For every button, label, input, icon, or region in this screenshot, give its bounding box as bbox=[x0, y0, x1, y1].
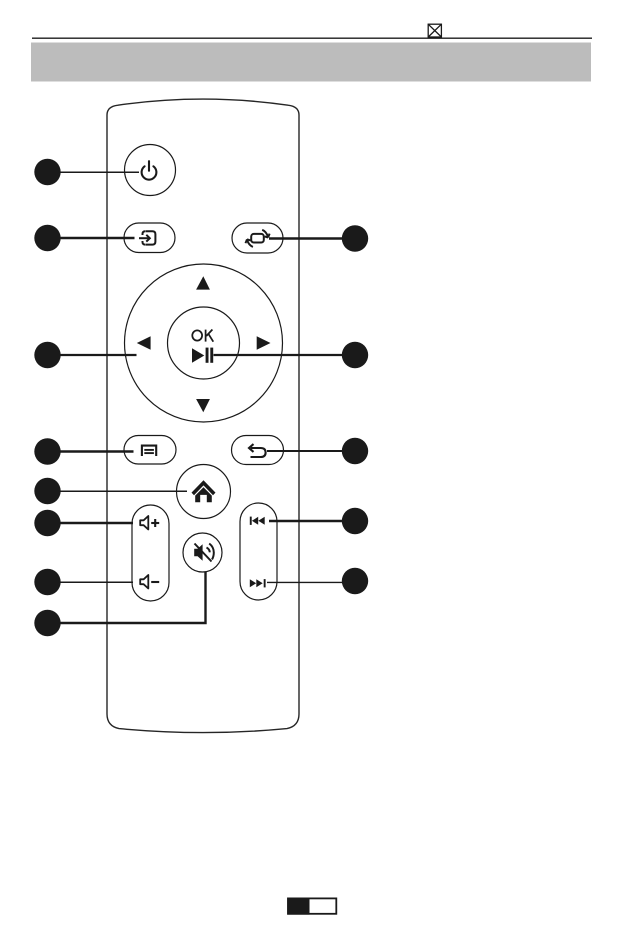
callout dot 10 (OK / play-pause) bbox=[342, 342, 368, 368]
previous icon bbox=[250, 517, 265, 525]
callout line to next bbox=[267, 581, 343, 583]
remote body outline bbox=[107, 99, 299, 733]
d-pad down arrow bbox=[196, 399, 210, 412]
header rule line bbox=[32, 37, 592, 39]
back icon bbox=[249, 444, 266, 457]
callout dot 5 (home) bbox=[34, 478, 60, 504]
callout dot 8 (mute) bbox=[34, 610, 60, 636]
callout line to rotate button bbox=[269, 237, 343, 239]
callout line to source button bbox=[60, 237, 135, 239]
envelope icon bbox=[428, 24, 441, 37]
OK label (drawn as vector glyphs) bbox=[192, 330, 213, 342]
vol- icon bbox=[140, 575, 148, 589]
gray title banner bbox=[31, 43, 591, 82]
menu button bbox=[124, 436, 176, 465]
callout line to vol+ bbox=[60, 522, 133, 524]
callout elbow line to mute button bbox=[60, 572, 206, 623]
d-pad left arrow bbox=[137, 336, 151, 350]
d-pad up arrow bbox=[196, 276, 210, 289]
callout line from play-pause bbox=[214, 354, 343, 356]
callout line to power button bbox=[60, 171, 139, 173]
prev/next button bbox=[240, 503, 277, 600]
mute icon bbox=[194, 544, 202, 561]
page indicator filled half bbox=[287, 898, 309, 915]
back button bbox=[232, 436, 284, 465]
vol+ icon bbox=[140, 516, 148, 530]
callout line to menu button bbox=[60, 450, 134, 452]
callout dot 12 (previous) bbox=[342, 508, 368, 534]
callout dot 2 (source) bbox=[34, 225, 60, 251]
power icon bbox=[142, 161, 157, 179]
callout dot 6 (vol+) bbox=[34, 510, 60, 536]
d-pad inner circle (OK) bbox=[168, 307, 240, 379]
rotate icon bbox=[246, 230, 270, 247]
callout dot 11 (back) bbox=[342, 438, 368, 464]
source icon bbox=[139, 231, 155, 244]
callout dot 4 (menu) bbox=[34, 438, 60, 464]
d-pad outer ring bbox=[125, 264, 283, 422]
power button bbox=[125, 145, 176, 196]
home button bbox=[177, 465, 231, 519]
callout line to back button bbox=[267, 450, 343, 452]
source button bbox=[124, 223, 175, 253]
play/pause icon bbox=[192, 348, 213, 363]
mute button bbox=[183, 533, 222, 572]
d-pad right arrow bbox=[257, 336, 271, 350]
callout dot 1 (power) bbox=[34, 159, 60, 185]
callout dot 7 (vol-) bbox=[34, 569, 60, 595]
menu icon bbox=[142, 446, 156, 456]
callout line to vol- bbox=[60, 581, 133, 583]
callout line to d-pad left arrow bbox=[60, 354, 137, 356]
callout dot 3 (d-pad left) bbox=[34, 342, 60, 368]
next icon bbox=[250, 579, 266, 587]
callout dot 9 (rotate) bbox=[342, 225, 368, 251]
callout line to previous bbox=[269, 520, 343, 522]
home icon bbox=[192, 480, 216, 502]
volume rocker button bbox=[132, 505, 169, 601]
callout dot 13 (next) bbox=[342, 568, 368, 594]
callout line to home button bbox=[60, 490, 187, 492]
rotate button bbox=[232, 223, 283, 253]
page number indicator box bbox=[288, 898, 336, 913]
